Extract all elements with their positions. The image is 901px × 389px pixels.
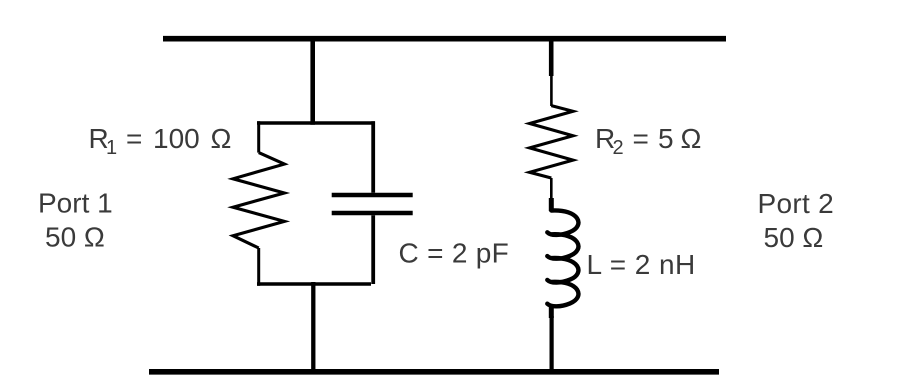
svg-text:L = 2 nH: L = 2 nH [587, 249, 696, 280]
wire tap from top bus to R2 (thick) [549, 36, 554, 76]
wire tap from RC loop to bottom bus [311, 282, 315, 373]
wire RC loop bottom [257, 282, 371, 286]
svg-text:2: 2 [613, 137, 624, 159]
label port 2 [758, 188, 835, 253]
svg-text:50 Ω: 50 Ω [764, 222, 824, 253]
svg-text:5: 5 [658, 123, 674, 154]
wire R1 top lead [257, 121, 260, 152]
resistor R1 [233, 153, 284, 248]
resistor R2 [530, 106, 573, 178]
label port 1 [38, 188, 113, 253]
svg-text:=: = [633, 123, 649, 154]
wire top bus [163, 36, 726, 42]
wire R2 top lead (thin) [550, 75, 553, 106]
wire between R2 and L [550, 178, 553, 200]
wire from L to bottom bus [549, 316, 553, 373]
inductor L coil [547, 210, 578, 306]
wire capacitor top lead [371, 121, 375, 193]
svg-text:50 Ω: 50 Ω [45, 222, 105, 253]
svg-text:1: 1 [106, 137, 117, 159]
svg-text:Port 2: Port 2 [758, 188, 835, 219]
wire RC loop top [257, 121, 375, 125]
svg-text:Ω: Ω [211, 123, 232, 154]
capacitor C top plate [332, 193, 413, 198]
label R2 value [595, 123, 701, 159]
wire tap from top bus to RC loop [310, 36, 315, 125]
wire bottom bus [149, 369, 719, 375]
capacitor C bottom plate [332, 211, 413, 216]
svg-text:=: = [126, 123, 142, 154]
inductor L top stub [549, 198, 554, 211]
svg-text:Port 1: Port 1 [38, 188, 113, 219]
svg-text:Ω: Ω [681, 123, 702, 154]
inductor L bottom stub [549, 305, 554, 318]
wire capacitor bottom lead [371, 215, 375, 284]
label R1 value [89, 123, 232, 159]
svg-text:C = 2 pF: C = 2 pF [399, 238, 510, 269]
wire R1 bottom lead [257, 248, 260, 286]
svg-text:100: 100 [153, 123, 200, 154]
